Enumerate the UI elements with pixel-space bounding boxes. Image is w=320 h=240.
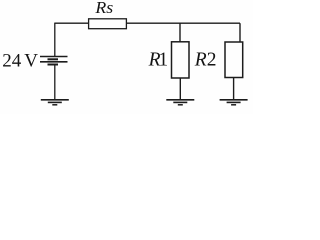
wire R1 top stem: [179, 23, 181, 42]
wire R2 bottom stem: [233, 78, 235, 100]
wire battery bottom stem: [54, 65, 56, 100]
svg-text:Rs: Rs: [94, 0, 113, 17]
wire R2 top stem: [239, 23, 241, 42]
resistor R2: [225, 42, 243, 78]
ground (R1): [166, 100, 194, 105]
svg-text:R1: R1: [148, 49, 168, 70]
wire left vertical from bus to battery: [54, 23, 56, 57]
resistor R1: [172, 42, 190, 78]
ground (battery): [41, 100, 69, 105]
ground (R2): [220, 100, 248, 105]
battery V1 24V plates: [40, 57, 68, 65]
svg-text:24V: 24V: [2, 51, 38, 72]
wire top horizontal bus: [55, 22, 240, 24]
wire R1 bottom stem: [179, 78, 181, 100]
resistor Rs: [89, 19, 127, 29]
svg-text:R2: R2: [194, 49, 217, 70]
